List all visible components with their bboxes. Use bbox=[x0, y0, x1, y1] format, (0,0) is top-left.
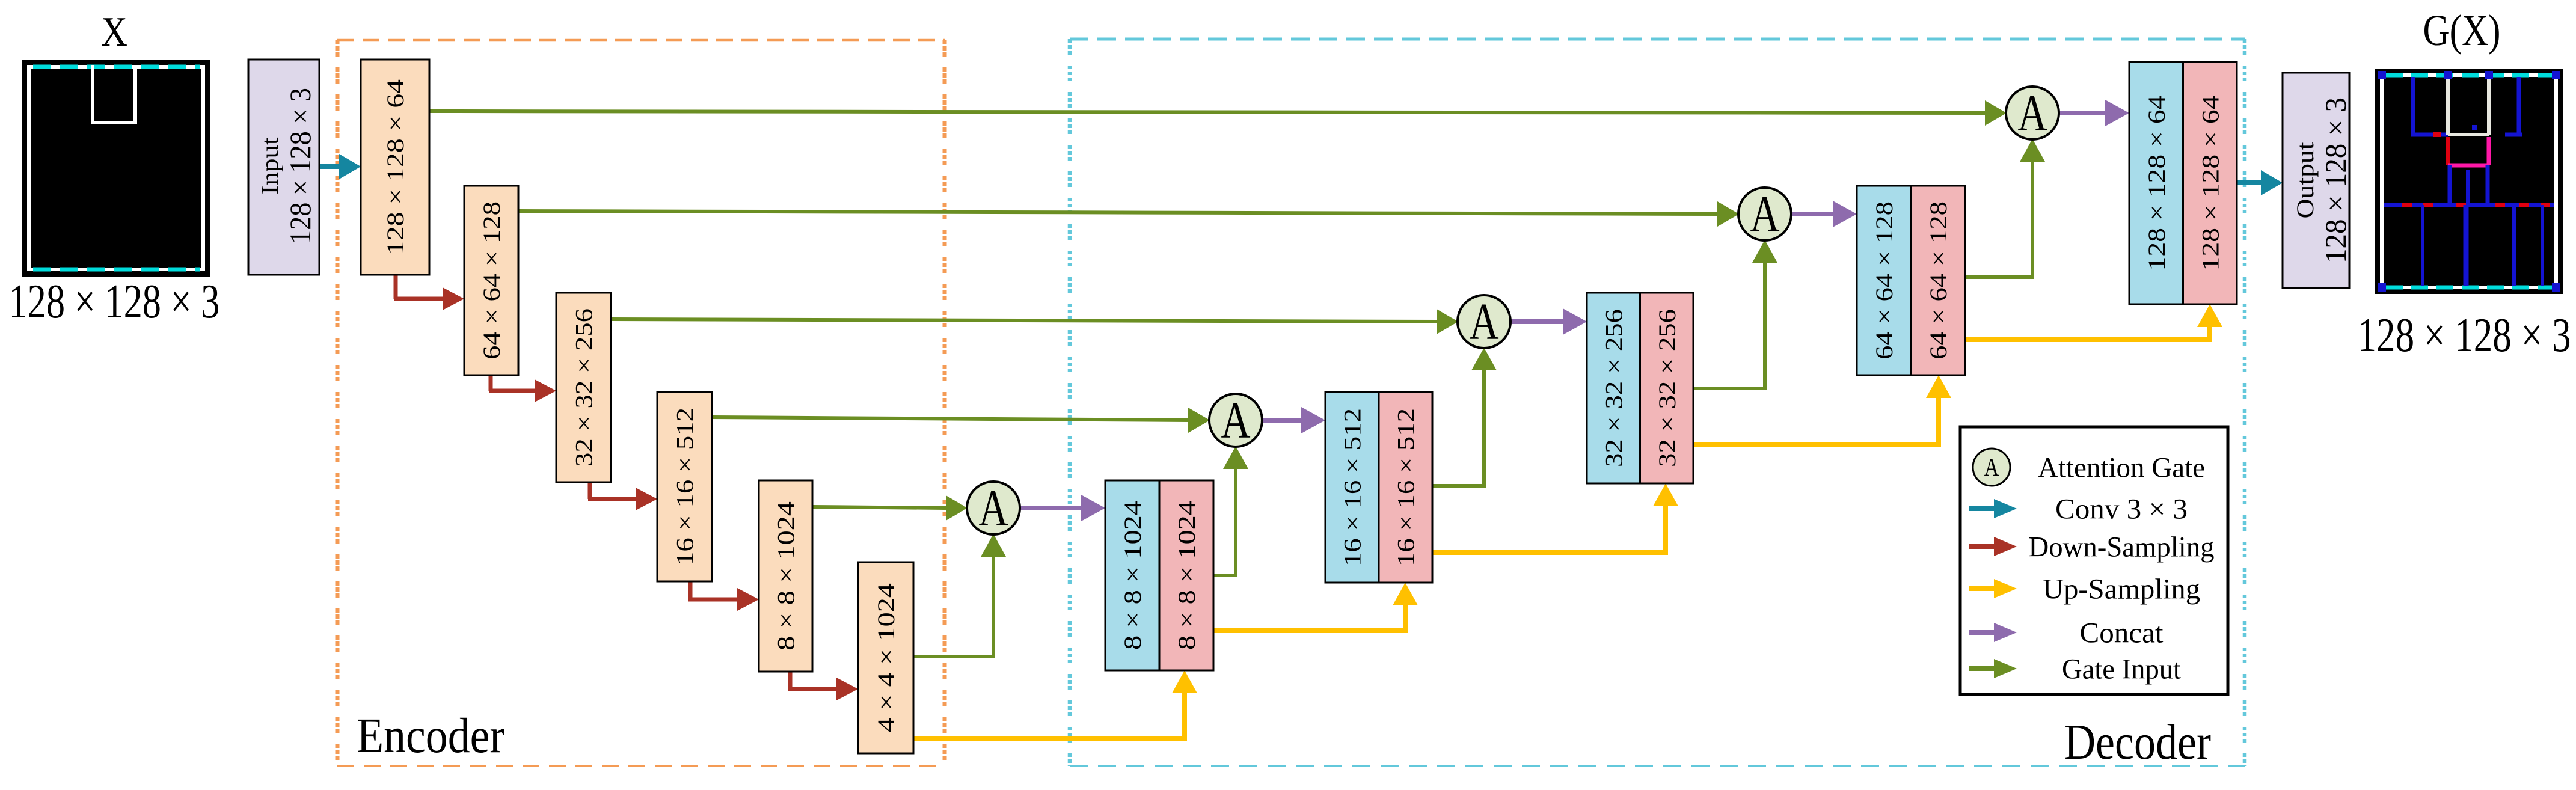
svg-text:128 × 128 × 3: 128 × 128 × 3 bbox=[2319, 97, 2352, 263]
svg-text:16 × 16 × 512: 16 × 16 × 512 bbox=[672, 408, 699, 566]
svg-text:Attention Gate: Attention Gate bbox=[2038, 452, 2205, 483]
svg-text:Conv 3 × 3: Conv 3 × 3 bbox=[2055, 493, 2188, 525]
svg-text:A: A bbox=[978, 479, 1008, 537]
svg-text:8 × 8 × 1024: 8 × 8 × 1024 bbox=[1119, 501, 1146, 650]
svg-text:8 × 8 × 1024: 8 × 8 × 1024 bbox=[1173, 501, 1200, 650]
svg-text:Down-Sampling: Down-Sampling bbox=[2029, 531, 2215, 563]
svg-text:16 × 16 × 512: 16 × 16 × 512 bbox=[1393, 408, 1420, 566]
svg-text:Input: Input bbox=[256, 138, 283, 195]
svg-text:G(X): G(X) bbox=[2423, 6, 2501, 55]
svg-text:32 × 32 × 256: 32 × 32 × 256 bbox=[571, 308, 598, 467]
svg-text:8 × 8 × 1024: 8 × 8 × 1024 bbox=[773, 501, 800, 651]
svg-text:64 × 64 × 128: 64 × 64 × 128 bbox=[1871, 201, 1898, 360]
svg-text:128 × 128 × 64: 128 × 128 × 64 bbox=[2197, 96, 2224, 271]
svg-text:Decoder: Decoder bbox=[2064, 714, 2211, 770]
svg-text:128 × 128 × 3: 128 × 128 × 3 bbox=[2358, 309, 2571, 362]
svg-text:Output: Output bbox=[2292, 142, 2319, 219]
svg-text:64 × 64 × 128: 64 × 64 × 128 bbox=[1925, 201, 1952, 360]
svg-text:A: A bbox=[1984, 453, 1999, 481]
svg-text:32 × 32 × 256: 32 × 32 × 256 bbox=[1654, 309, 1681, 467]
svg-text:4 × 4 × 1024: 4 × 4 × 1024 bbox=[872, 583, 900, 732]
svg-text:X: X bbox=[101, 9, 127, 55]
svg-text:Up-Sampling: Up-Sampling bbox=[2043, 573, 2200, 605]
svg-text:32 × 32 × 256: 32 × 32 × 256 bbox=[1600, 309, 1627, 467]
svg-text:128 × 128 × 3: 128 × 128 × 3 bbox=[283, 88, 317, 244]
svg-text:Gate Input: Gate Input bbox=[2062, 653, 2182, 685]
svg-text:A: A bbox=[2017, 84, 2047, 142]
svg-text:128 × 128 × 64: 128 × 128 × 64 bbox=[2143, 96, 2170, 271]
svg-text:A: A bbox=[1221, 391, 1250, 449]
svg-text:128 × 128 × 64: 128 × 128 × 64 bbox=[382, 79, 409, 255]
svg-text:64 × 64 × 128: 64 × 64 × 128 bbox=[478, 201, 505, 360]
svg-text:128 × 128 × 3: 128 × 128 × 3 bbox=[9, 274, 220, 328]
svg-text:A: A bbox=[1469, 292, 1498, 351]
svg-text:A: A bbox=[1750, 185, 1779, 243]
svg-text:Concat: Concat bbox=[2080, 617, 2164, 649]
svg-text:Encoder: Encoder bbox=[357, 708, 504, 763]
svg-text:16 × 16 × 512: 16 × 16 × 512 bbox=[1339, 408, 1366, 566]
